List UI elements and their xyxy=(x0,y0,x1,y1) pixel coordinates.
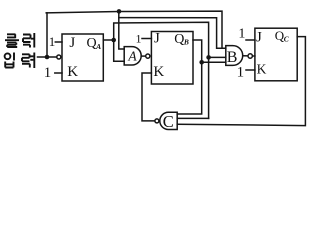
glyph 력 xyxy=(22,53,34,69)
wire QA down to gate A input xyxy=(114,40,125,61)
gate B and-gate body xyxy=(226,46,243,66)
wire QC output feedback xyxy=(177,37,305,126)
wire QA to gate B input xyxy=(209,56,226,58)
gate C nand-gate body (faces left) xyxy=(160,112,177,129)
glyph 럭 xyxy=(23,33,34,48)
bubble gate B output xyxy=(248,54,252,58)
wire clock top rail xyxy=(46,11,222,48)
svg-text:B: B xyxy=(227,49,238,66)
glyph 입 xyxy=(5,53,11,59)
gate A and-gate body xyxy=(124,47,141,65)
svg-text:1: 1 xyxy=(238,26,245,41)
svg-text:1: 1 xyxy=(49,34,56,49)
wire QA output xyxy=(103,39,113,41)
wire gate B to FF C clock xyxy=(253,55,255,57)
wire J input FF C xyxy=(246,39,255,41)
flip-flop U2 box QB xyxy=(151,32,193,85)
wire J input FF A xyxy=(55,41,62,43)
wire QB to gate B input xyxy=(202,61,226,63)
wire K input FF C xyxy=(246,69,255,71)
wire gate B output xyxy=(243,55,248,57)
svg-text:1: 1 xyxy=(136,31,142,45)
svg-text:K: K xyxy=(257,62,267,77)
wire clock branch to gate A xyxy=(119,11,124,49)
label korean clock input text xyxy=(5,33,35,68)
svg-text:1: 1 xyxy=(237,64,245,80)
svg-text:C: C xyxy=(163,112,174,131)
wire QA up to rail xyxy=(114,22,209,118)
wire clock input horizontal xyxy=(38,56,57,58)
svg-text:1: 1 xyxy=(44,65,52,81)
svg-text:K: K xyxy=(153,64,164,80)
wire J input FF B xyxy=(142,38,151,40)
wire QB output xyxy=(177,40,202,114)
bubble gate A output xyxy=(146,54,150,58)
flip-flop U3 box QC xyxy=(255,28,297,81)
wire gate A output xyxy=(141,55,146,57)
svg-text:J: J xyxy=(154,31,160,47)
svg-text:J: J xyxy=(256,29,262,45)
bubble gate C output xyxy=(155,119,159,123)
node clock rail junction xyxy=(117,9,122,14)
svg-text:K: K xyxy=(67,64,78,80)
node QA to gate B junction xyxy=(206,55,211,60)
wire QA branch to gate C input xyxy=(177,117,208,119)
svg-text:A: A xyxy=(127,49,137,64)
glyph 클 xyxy=(5,34,19,47)
bubble clock FF A xyxy=(57,55,61,59)
node QA junction xyxy=(111,38,116,43)
node clock junction xyxy=(45,55,50,60)
wire K input FF A xyxy=(55,72,62,74)
wire clock rail 2 to gate B xyxy=(119,18,226,49)
svg-text:J: J xyxy=(69,35,75,51)
node QB junction xyxy=(199,60,204,65)
wire clock vertical up xyxy=(46,13,48,57)
wire K input FF B from gate C xyxy=(142,73,155,121)
flip-flop U1 box QA xyxy=(62,34,103,81)
